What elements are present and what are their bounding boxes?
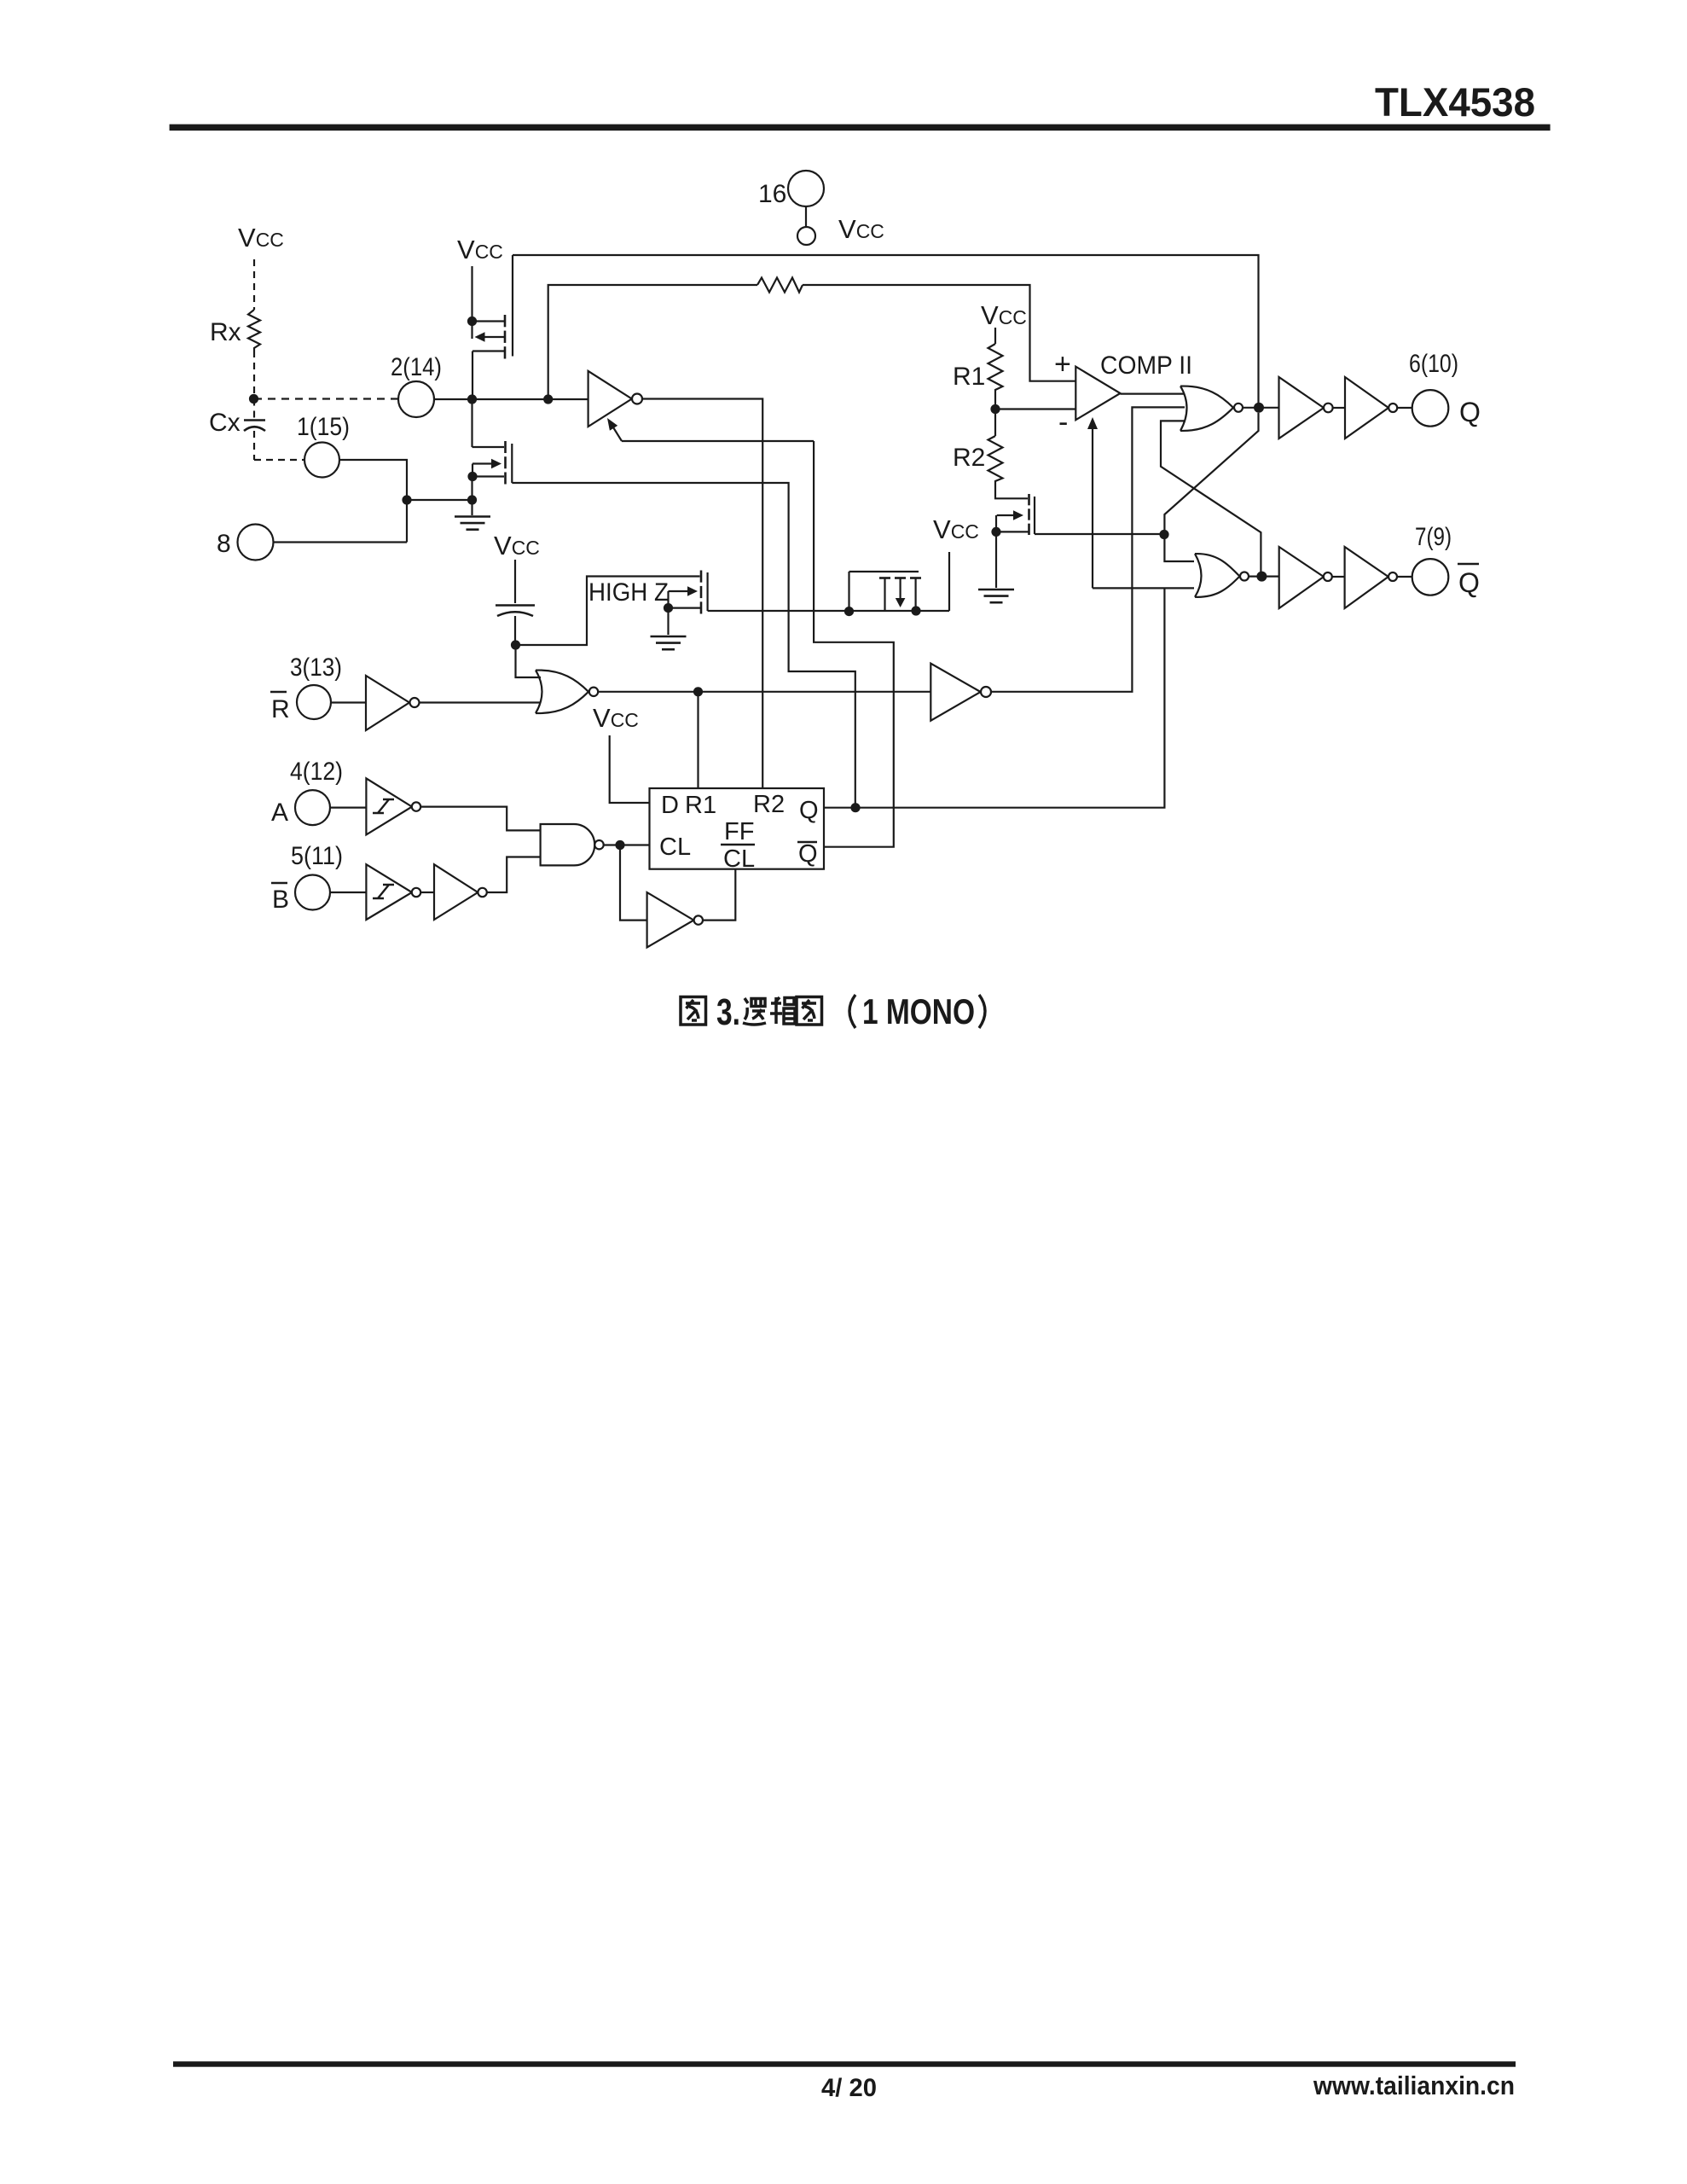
svg-text:R1: R1 [953, 363, 985, 391]
hysteresis arrow into U1 (from FF Qbar) [622, 440, 814, 442]
junction QS right [911, 606, 920, 615]
wire NOR2 output to P1 gate (top feedback) [513, 255, 1259, 408]
wire N1 gate to FF Q net [512, 483, 855, 808]
svg-text:Q: Q [1459, 397, 1481, 427]
svg-text:4/ 20: 4/ 20 [821, 2074, 877, 2102]
inverter U7 (clock) [647, 892, 694, 948]
junction CL [615, 840, 624, 850]
wire C1 to node C [514, 616, 516, 645]
wire N3 gate to cross-couple node [1035, 533, 1164, 535]
inverter U2 [366, 676, 409, 730]
svg-text:R1: R1 [685, 792, 716, 819]
wire pin16 to open terminal [805, 206, 807, 227]
schmitt inverter U4 [366, 778, 412, 834]
svg-text:www.tailianxin.cn: www.tailianxin.cn [1313, 2071, 1515, 2100]
wire U7 to FF CLbar [703, 869, 735, 921]
wire node A to NMOS source [407, 499, 472, 501]
footer rule [173, 2061, 1516, 2066]
wire FF Q / strobe to NOR3 bottom input [1093, 587, 1194, 589]
svg-text:R2: R2 [953, 444, 985, 472]
svg-text:FF: FF [724, 818, 754, 845]
wire NOR3 cross-couple to NOR2 input [1161, 421, 1261, 572]
junction node A [402, 495, 411, 504]
schmitt inverter U5 [366, 864, 412, 920]
wire VCC to bias rail [948, 552, 950, 611]
inverter U10 [1279, 547, 1324, 608]
transistor N3 (NMOS discharge) [1028, 494, 1030, 505]
wire U4 to NAND top input [420, 807, 541, 831]
junction R1/R2 [990, 404, 1000, 414]
wire VCC to FF D input [610, 735, 650, 803]
svg-text:5(11): 5(11) [291, 842, 343, 870]
resistor R2 [994, 409, 996, 437]
wire pin8 to node A [274, 541, 408, 543]
resistor RT (feedback) [757, 278, 803, 293]
svg-text:Cx: Cx [209, 409, 241, 437]
comparator COMP II [1075, 367, 1120, 421]
wire dashed Cx to pin 1(15) [253, 431, 255, 460]
svg-text:R: R [271, 695, 290, 723]
wire pin5 to U5 [330, 892, 366, 893]
wire pin3 to U2 [331, 701, 366, 703]
svg-text:CL: CL [723, 845, 755, 873]
wire to pin 6(10) [1397, 407, 1412, 409]
gate NOR3 [1195, 554, 1240, 597]
wire FF Q output [824, 589, 1164, 808]
wire dashed Rx to node [253, 351, 255, 399]
transistor N2 (HIGH Z switch) [700, 571, 703, 583]
svg-text:1(15): 1(15) [297, 413, 350, 441]
junction QS left [844, 607, 854, 616]
wire P1 gate [512, 255, 513, 357]
wire pin1 to node A [339, 460, 407, 543]
wire VCC to R1 [994, 328, 996, 344]
resistor R1 [988, 344, 1003, 392]
svg-text:3.: 3. [716, 991, 740, 1033]
wire node C to NOR1 top input [516, 645, 542, 677]
inverter U6 [434, 864, 478, 920]
transistor P1 (PMOS) [472, 320, 506, 322]
header rule [170, 125, 1551, 131]
wire node C to N2 drain [516, 577, 700, 646]
wire junction to COMP minus input [995, 408, 1075, 409]
wire main node to COMP plus (feedback with resistor) [548, 285, 757, 399]
caption text [681, 997, 706, 1025]
svg-text:TLX4538: TLX4538 [1375, 79, 1535, 125]
svg-text:Q: Q [798, 840, 818, 868]
flip-flop FF [650, 788, 825, 869]
svg-text:Rx: Rx [210, 318, 241, 346]
svg-text:1 MONO: 1 MONO [862, 991, 975, 1031]
wire FF Qbar to U1 arrow [814, 441, 894, 847]
svg-text:7(9): 7(9) [1415, 523, 1452, 551]
wire pin4 to U4 [330, 806, 366, 808]
wire R2 to N3 drain [995, 482, 1028, 498]
junction P1 source [467, 317, 477, 326]
junction main/PMOS drain [467, 394, 477, 404]
junction node C [511, 640, 520, 649]
svg-text:Q: Q [1458, 567, 1480, 598]
junction N3 gate / cross-couple [1159, 530, 1168, 539]
junction NOR2 output [1254, 403, 1264, 413]
wire U1 output to FF R2 [642, 399, 763, 789]
gate NAND G1 [541, 824, 595, 865]
svg-text:4(12): 4(12) [290, 758, 343, 786]
wire R1 to junction [994, 392, 996, 409]
svg-text:16: 16 [758, 180, 786, 208]
junction NOR3 output [1256, 572, 1267, 582]
current source QS (triple gate) [848, 572, 849, 612]
svg-text:3(13): 3(13) [290, 653, 342, 682]
ground (N2 source) [667, 608, 669, 635]
wire NAND out to FF CL [604, 844, 650, 845]
wire main node [434, 398, 588, 400]
transistor N1 (NMOS) [471, 399, 472, 447]
wire VCC to P1 source [471, 266, 472, 339]
wire NOR2 cross-couple to NOR3 input [1164, 413, 1258, 561]
inverter U9 [1345, 377, 1388, 439]
svg-text:-: - [1058, 406, 1068, 439]
capacitor Cx [253, 399, 255, 419]
wire HIGH Z gate rail [708, 610, 949, 612]
ground (N3 source) [995, 531, 997, 588]
wire CL to U7 [620, 845, 647, 921]
junction NOR1 out / FF R1 [693, 687, 703, 696]
wire NOR1 output (reset rail) [598, 691, 930, 693]
strobe arrow into COMP II (FF Q net) [1092, 427, 1093, 588]
wire to FF R1 [697, 692, 699, 788]
inverter U3 [930, 664, 980, 721]
svg-text:6(10): 6(10) [1409, 350, 1458, 378]
wire dashed node to pin 2(14) [254, 398, 398, 399]
open terminal circle VCC [797, 227, 815, 245]
svg-text:R2: R2 [753, 791, 785, 818]
junction main/feedback riser [543, 394, 553, 404]
junction node B [467, 495, 477, 504]
gate NOR1 [536, 671, 588, 714]
wire COMP II output to NOR2 [1121, 393, 1186, 395]
inverter U1 [588, 371, 632, 427]
svg-text:A: A [271, 799, 288, 827]
svg-text:+: + [1054, 348, 1071, 380]
svg-text:8: 8 [217, 530, 231, 558]
wire dashed VCC to Rx [253, 259, 255, 310]
svg-text:CL: CL [659, 834, 691, 861]
wire U3 output to NOR2 input [991, 407, 1185, 691]
wire to pin 7(9) [1397, 576, 1412, 578]
svg-text:D: D [661, 792, 679, 819]
svg-text:2(14): 2(14) [391, 353, 442, 381]
wire resistor to COMP plus input [803, 285, 1075, 381]
junction node Rx/Cx [249, 394, 258, 404]
resistor Rx [248, 310, 260, 351]
wire U5 to U6 [420, 892, 434, 893]
ground (N1 source) [471, 500, 472, 515]
inverter U11 [1345, 547, 1388, 608]
capacitor C1 [496, 604, 535, 607]
svg-text:COMP II: COMP II [1100, 351, 1192, 380]
wire VCC to capacitor C1 [514, 560, 516, 603]
inverter U8 [1279, 377, 1325, 439]
gate NOR2 [1180, 386, 1233, 431]
svg-text:Q: Q [799, 797, 819, 824]
wire U2 to NOR1 input [420, 701, 542, 703]
svg-text:HIGH Z: HIGH Z [588, 578, 669, 607]
junction FF Q / N1 gate riser [850, 803, 860, 812]
wire U6 to NAND bottom input [487, 857, 541, 893]
svg-text:B: B [272, 886, 289, 914]
